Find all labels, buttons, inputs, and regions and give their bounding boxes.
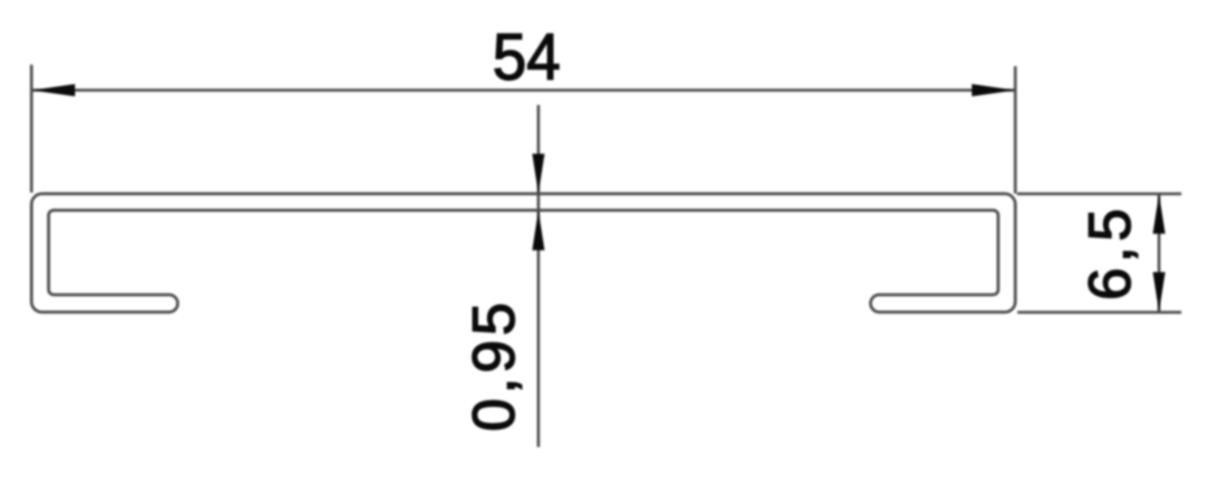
extension line left of dimension 54 (30, 65, 33, 193)
extension line top of dimension 6,5 (1017, 192, 1181, 195)
arrowhead up of dimension 0,95 (532, 210, 544, 250)
dimension line 54 (32, 89, 1016, 92)
arrowhead right of dimension 54 (972, 84, 1016, 96)
arrowhead up of dimension 6,5 (1153, 194, 1165, 234)
svg-text:0,95: 0,95 (460, 303, 527, 432)
dimension line 6,5 (1158, 194, 1161, 312)
extension line bottom of dimension 6,5 (1017, 311, 1181, 314)
svg-text:6,5: 6,5 (1077, 209, 1143, 301)
profile outline (C-channel cross-section) (32, 194, 1016, 312)
arrowhead down of dimension 6,5 (1153, 272, 1165, 312)
arrowhead left of dimension 54 (32, 84, 76, 96)
arrowhead down of dimension 0,95 (532, 154, 544, 194)
svg-text:54: 54 (493, 20, 561, 94)
extension line right of dimension 54 (1014, 66, 1017, 193)
leader line of dimension 0,95 (537, 105, 540, 447)
